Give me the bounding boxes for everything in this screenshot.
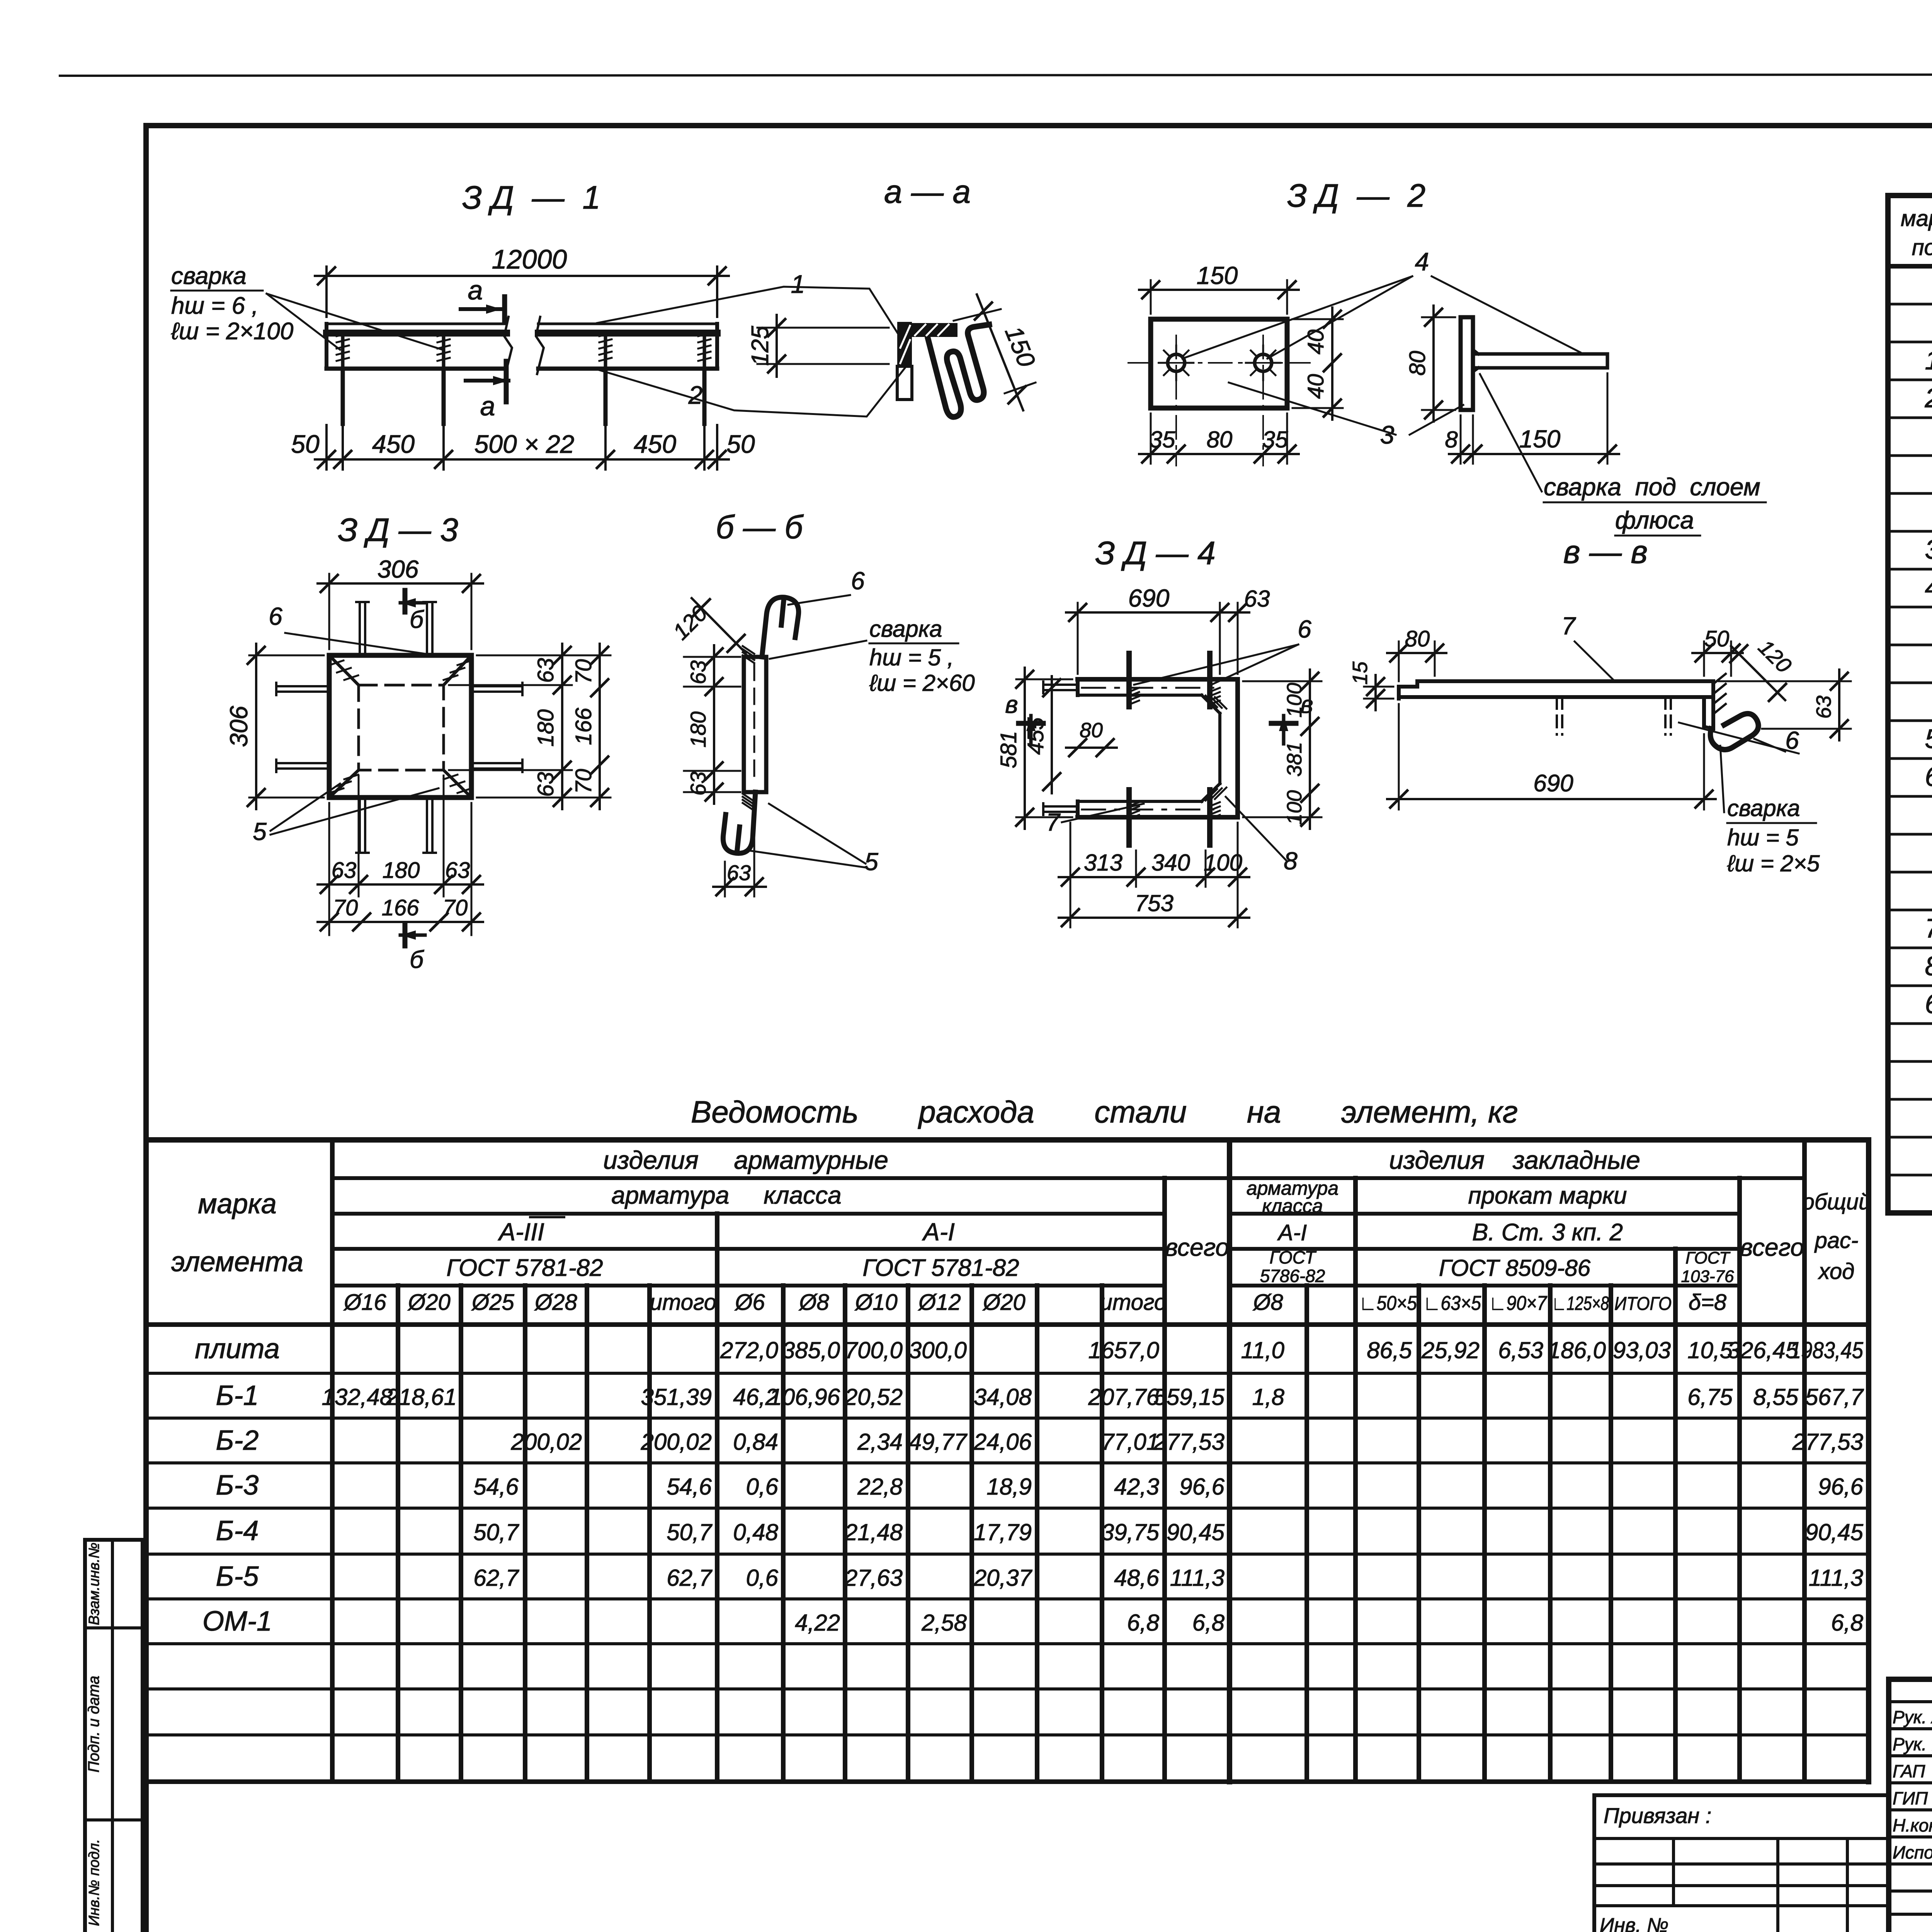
ZD-2 plate — [1151, 319, 1287, 408]
left strip boxes — [85, 1540, 143, 1932]
svg-text:изделия закладные: изделия закладные — [1389, 1146, 1640, 1174]
svg-text:207,76: 207,76 — [1088, 1384, 1159, 1410]
svg-text:hш = 5: hш = 5 — [1727, 825, 1799, 850]
svg-text:90,45: 90,45 — [1805, 1519, 1864, 1545]
svg-text:80: 80 — [1080, 719, 1103, 742]
ZD-3 section mark b bottom — [403, 924, 408, 946]
svg-text:0,84: 0,84 — [733, 1429, 778, 1455]
svg-text:в: в — [1005, 690, 1018, 718]
v-v dim 63 right — [1719, 680, 1851, 682]
svg-text:прокат марки: прокат марки — [1468, 1182, 1627, 1209]
ZD-3 dim 306 left — [249, 655, 324, 656]
svg-text:Ø10: Ø10 — [854, 1290, 898, 1315]
svg-text:ГОСТ: ГОСТ — [1685, 1248, 1731, 1267]
ZD-2 side view — [1461, 317, 1473, 410]
svg-text:581: 581 — [996, 731, 1021, 769]
svg-text:Ø20: Ø20 — [982, 1290, 1026, 1315]
ZD-1 break lines — [504, 317, 512, 374]
svg-text:70: 70 — [443, 895, 468, 920]
svg-text:7: 7 — [1561, 612, 1576, 640]
svg-text:186,0: 186,0 — [1548, 1337, 1606, 1363]
svg-text:753: 753 — [1135, 890, 1173, 916]
svg-text:ход: ход — [1818, 1259, 1855, 1284]
ZD-3 section mark b top — [403, 590, 408, 612]
svg-text:25,92: 25,92 — [1421, 1337, 1480, 1363]
svg-text:3: 3 — [1380, 420, 1395, 449]
a-a dim 125 — [757, 327, 889, 329]
ZD-4 bottom dims 313 340 100 — [1070, 823, 1071, 927]
svg-text:49,77: 49,77 — [909, 1429, 968, 1455]
svg-text:поз.: поз. — [1912, 235, 1932, 260]
svg-text:70: 70 — [333, 895, 358, 920]
svg-text:hш = 6 ,: hш = 6 , — [171, 293, 259, 319]
svg-text:Б-2: Б-2 — [216, 1425, 259, 1456]
svg-text:флюса: флюса — [1615, 506, 1694, 534]
ZD-4 corner weld hatch — [1206, 696, 1217, 707]
svg-text:100: 100 — [1283, 790, 1306, 825]
svg-text:плита: плита — [195, 1333, 279, 1364]
section a-a detail — [897, 322, 912, 366]
svg-text:6: 6 — [1298, 615, 1311, 643]
svg-text:62,7: 62,7 — [667, 1565, 713, 1591]
svg-text:42,3: 42,3 — [1114, 1474, 1159, 1500]
big table horizontal lines — [146, 1137, 1869, 1143]
svg-text:80: 80 — [1405, 351, 1430, 376]
svg-text:всего: всего — [1740, 1233, 1804, 1261]
ZD-4 right dims 100 381 100 — [1243, 680, 1321, 682]
svg-text:500 × 22: 500 × 22 — [474, 430, 575, 458]
svg-text:а: а — [468, 275, 483, 305]
svg-text:150: 150 — [1519, 425, 1561, 453]
svg-text:A-I: A-I — [1277, 1220, 1307, 1245]
svg-text:6,8: 6,8 — [1831, 1610, 1864, 1636]
svg-text:70: 70 — [571, 659, 596, 684]
ZD-1 section marks a-a — [502, 297, 507, 321]
svg-text:6,53: 6,53 — [1498, 1337, 1543, 1363]
svg-text:100: 100 — [1204, 850, 1242, 876]
b-b dim 120 — [692, 598, 746, 653]
v-v dim 120 diagonal — [1731, 646, 1785, 700]
svg-text:общий: общий — [1802, 1189, 1871, 1214]
svg-text:35: 35 — [1150, 427, 1175, 452]
svg-text:313: 313 — [1084, 850, 1122, 876]
svg-text:27,63: 27,63 — [844, 1565, 903, 1591]
svg-text:18,9: 18,9 — [986, 1474, 1032, 1500]
section b-b detail — [744, 657, 766, 792]
svg-text:ℓш = 2×100: ℓш = 2×100 — [171, 318, 293, 345]
ZD-3 dim 306 top — [328, 574, 330, 649]
svg-text:40: 40 — [1303, 374, 1328, 399]
svg-text:рас-: рас- — [1814, 1228, 1859, 1253]
svg-text:306: 306 — [378, 555, 419, 583]
svg-text:96,6: 96,6 — [1818, 1474, 1863, 1500]
ZD-4 dim 80 — [1066, 747, 1117, 749]
svg-text:100: 100 — [1283, 683, 1306, 718]
svg-text:277,53: 277,53 — [1792, 1429, 1863, 1455]
svg-text:6: 6 — [269, 602, 282, 630]
svg-text:Ø8: Ø8 — [798, 1290, 829, 1315]
svg-text:93,03: 93,03 — [1613, 1337, 1671, 1363]
svg-text:Ø6: Ø6 — [734, 1290, 765, 1315]
ZD-4 plan outline — [1078, 677, 1238, 682]
svg-text:1: 1 — [1925, 345, 1932, 375]
ZD-1 leader to 2 — [597, 364, 908, 417]
ZD-3 rods — [276, 685, 329, 687]
svg-text:Ø28: Ø28 — [534, 1290, 577, 1315]
svg-text:элемента: элемента — [171, 1247, 303, 1277]
v-v dim 80 — [1398, 641, 1400, 681]
svg-text:Б-3: Б-3 — [216, 1470, 259, 1501]
svg-text:277,53: 277,53 — [1153, 1429, 1225, 1455]
svg-text:132,48: 132,48 — [321, 1384, 393, 1410]
svg-text:6,8: 6,8 — [1192, 1610, 1225, 1636]
svg-text:63: 63 — [686, 660, 710, 684]
svg-text:класса: класса — [1262, 1195, 1323, 1217]
svg-text:12000: 12000 — [492, 244, 567, 274]
svg-text:Ø25: Ø25 — [471, 1290, 514, 1315]
svg-text:63: 63 — [445, 858, 470, 883]
svg-text:З Д — 4: З Д — 4 — [1095, 535, 1215, 571]
svg-text:ОМ-1: ОМ-1 — [202, 1606, 272, 1637]
title block outer — [1889, 1679, 1932, 1932]
svg-text:50: 50 — [726, 430, 755, 458]
svg-text:итого: итого — [1100, 1290, 1167, 1315]
svg-text:4: 4 — [1415, 247, 1429, 276]
svg-text:6,8: 6,8 — [1127, 1610, 1160, 1636]
svg-text:а: а — [480, 391, 495, 421]
svg-text:Рук. КБ-1: Рук. КБ-1 — [1893, 1734, 1932, 1754]
svg-text:1,8: 1,8 — [1252, 1384, 1285, 1410]
svg-text:20,52: 20,52 — [844, 1384, 903, 1410]
svg-text:6: 6 — [1925, 762, 1932, 792]
svg-text:166: 166 — [571, 707, 596, 745]
b-b bottom dim 63 — [724, 862, 726, 896]
svg-text:1657,0: 1657,0 — [1088, 1337, 1159, 1363]
ZD-3 right dims 70 166 70 — [599, 644, 601, 809]
svg-text:Ø8: Ø8 — [1252, 1290, 1283, 1315]
svg-text:Рук. АБ-1: Рук. АБ-1 — [1893, 1707, 1932, 1727]
svg-text:марка: марка — [198, 1189, 276, 1219]
svg-text:8: 8 — [1925, 951, 1932, 981]
svg-text:б — б: б — б — [716, 509, 804, 545]
v-v dim 15 — [1364, 686, 1393, 688]
svg-text:A-I: A-I — [922, 1218, 955, 1246]
svg-text:340: 340 — [1151, 850, 1190, 876]
svg-text:Ø12: Ø12 — [918, 1290, 961, 1315]
svg-text:4: 4 — [1925, 572, 1932, 602]
svg-text:8,55: 8,55 — [1753, 1384, 1798, 1410]
svg-text:20,37: 20,37 — [973, 1565, 1033, 1591]
svg-text:11,0: 11,0 — [1241, 1337, 1284, 1363]
svg-text:50: 50 — [1704, 626, 1730, 651]
svg-text:17,79: 17,79 — [974, 1519, 1032, 1545]
svg-text:0,48: 0,48 — [733, 1519, 778, 1545]
svg-text:103-76: 103-76 — [1681, 1267, 1734, 1286]
svg-text:690: 690 — [1533, 770, 1573, 797]
svg-text:ГОСТ 5781-82: ГОСТ 5781-82 — [446, 1255, 603, 1281]
svg-text:200,02: 200,02 — [640, 1429, 712, 1455]
svg-text:50: 50 — [291, 430, 320, 458]
v-v hook — [1710, 714, 1758, 750]
b-b bottom hook — [723, 792, 755, 853]
svg-text:567,7: 567,7 — [1805, 1384, 1864, 1410]
svg-text:Н.контр.: Н.контр. — [1893, 1815, 1932, 1835]
svg-text:50,7: 50,7 — [667, 1519, 713, 1545]
svg-text:7: 7 — [1046, 808, 1061, 836]
svg-text:ГОСТ 5781-82: ГОСТ 5781-82 — [862, 1255, 1019, 1281]
svg-text:48,6: 48,6 — [1114, 1565, 1159, 1591]
b-b hatch top/bottom — [743, 646, 754, 654]
svg-text:111,3: 111,3 — [1170, 1565, 1225, 1591]
svg-text:180: 180 — [533, 709, 558, 747]
svg-text:ГОСТ: ГОСТ — [1269, 1247, 1316, 1267]
v-v weld hatch right — [1713, 674, 1726, 684]
svg-text:изделия арматурные: изделия арматурные — [603, 1146, 888, 1174]
svg-text:A-III: A-III — [497, 1218, 544, 1246]
b-b left dims 63 180 63 — [684, 656, 740, 658]
ZD-3 corner welds — [329, 655, 359, 685]
svg-text:54,6: 54,6 — [667, 1474, 712, 1500]
svg-text:300,0: 300,0 — [909, 1337, 967, 1363]
svg-text:3: 3 — [1925, 534, 1932, 565]
svg-text:а — а: а — а — [884, 173, 971, 210]
svg-text:сварка: сварка — [1727, 795, 1800, 821]
svg-text:5: 5 — [253, 818, 267, 845]
svg-text:63: 63 — [686, 772, 710, 796]
svg-text:63: 63 — [1244, 586, 1270, 612]
section v-v detail — [1399, 681, 1713, 699]
b-b top hook — [762, 597, 799, 657]
svg-text:Привязан :: Привязан : — [1604, 1803, 1711, 1828]
svg-text:З Д — 1: З Д — 1 — [462, 179, 600, 216]
svg-text:5: 5 — [1925, 724, 1932, 754]
svg-text:106,96: 106,96 — [769, 1384, 840, 1410]
ZD-2 dims 35 80 35 — [1150, 413, 1152, 464]
svg-text:З Д — 2: З Д — 2 — [1287, 177, 1425, 214]
svg-text:7: 7 — [1925, 913, 1932, 943]
svg-text:690: 690 — [1128, 584, 1170, 612]
svg-text:218,61: 218,61 — [385, 1384, 457, 1410]
svg-text:326,45: 326,45 — [1727, 1337, 1798, 1363]
svg-text:∟125×8: ∟125×8 — [1552, 1293, 1609, 1314]
big table vertical lines — [143, 1140, 149, 1782]
svg-text:166: 166 — [382, 895, 420, 920]
svg-text:0,6: 0,6 — [746, 1565, 779, 1591]
ZD-1 beam body — [327, 323, 507, 325]
ZD-3 bottom dims 63 180 63 — [328, 803, 330, 935]
svg-text:З Д — 3: З Д — 3 — [338, 512, 458, 548]
svg-text:5: 5 — [864, 848, 878, 876]
svg-text:итого: итого — [650, 1290, 716, 1315]
ZD-4 left dims 455 581 — [1016, 679, 1072, 680]
svg-text:10,5: 10,5 — [1687, 1337, 1733, 1363]
svg-text:450: 450 — [634, 430, 676, 458]
svg-text:Подп. и дата: Подп. и дата — [85, 1676, 102, 1772]
svg-text:80: 80 — [1207, 427, 1233, 452]
svg-text:22,8: 22,8 — [857, 1474, 903, 1500]
ZD-4 rods — [1126, 653, 1132, 707]
svg-text:39,75: 39,75 — [1101, 1519, 1160, 1545]
svg-text:сварка под слоем: сварка под слоем — [1544, 473, 1760, 501]
svg-text:35: 35 — [1262, 427, 1288, 452]
a-a hook rod — [928, 325, 989, 417]
svg-text:2: 2 — [688, 381, 703, 409]
svg-text:Взам.инв.№: Взам.инв.№ — [86, 1543, 102, 1625]
svg-text:В. Ст. 3 кп. 2: В. Ст. 3 кп. 2 — [1472, 1219, 1623, 1246]
svg-text:700,0: 700,0 — [845, 1337, 903, 1363]
svg-text:111,3: 111,3 — [1809, 1565, 1863, 1591]
svg-text:Ø20: Ø20 — [407, 1290, 451, 1315]
svg-text:арматура класса: арматура класса — [611, 1181, 841, 1209]
ZD-4 section marks v — [1019, 721, 1043, 726]
ZD-1 dim 12000 — [325, 267, 328, 317]
svg-text:180: 180 — [383, 858, 420, 883]
svg-text:200,02: 200,02 — [510, 1429, 582, 1455]
svg-text:6: 6 — [1925, 989, 1932, 1019]
svg-text:559,15: 559,15 — [1153, 1384, 1225, 1410]
svg-text:381: 381 — [1283, 742, 1306, 777]
svg-text:306: 306 — [225, 706, 253, 747]
ZD-2 center lines — [1128, 362, 1310, 364]
v-v dim 690 — [1398, 704, 1400, 810]
svg-text:Ø16: Ø16 — [343, 1290, 386, 1315]
svg-text:63: 63 — [533, 772, 558, 797]
svg-text:2,34: 2,34 — [857, 1429, 903, 1455]
svg-text:63: 63 — [1812, 696, 1835, 719]
ZD-2 dims 40 40 — [1293, 318, 1343, 320]
svg-text:5786-82: 5786-82 — [1260, 1266, 1325, 1286]
v-v hidden rods — [1556, 697, 1558, 735]
svg-text:1983,45: 1983,45 — [1790, 1337, 1864, 1363]
ZD-2 side dim 80 — [1422, 316, 1455, 318]
scan top edge line — [60, 74, 1932, 76]
svg-text:сварка: сварка — [869, 616, 942, 642]
svg-text:сварка: сварка — [171, 263, 247, 289]
ZD-4 dim 690 63 top — [1077, 603, 1079, 674]
ZD-3 bottom dims 70 166 70 — [318, 921, 483, 923]
ZD-2 side dims 8 150 — [1460, 415, 1462, 464]
svg-text:40: 40 — [1303, 330, 1328, 355]
ZD-3 right dims 63 180 63 — [477, 655, 611, 656]
svg-text:∟50×5: ∟50×5 — [1359, 1292, 1417, 1315]
svg-text:всего: всего — [1165, 1233, 1229, 1261]
svg-text:2: 2 — [1925, 383, 1932, 413]
svg-text:ГИП: ГИП — [1893, 1788, 1928, 1808]
ZD-4 left stubs — [1043, 684, 1078, 686]
svg-text:80: 80 — [1405, 626, 1430, 651]
svg-text:∟90×7: ∟90×7 — [1489, 1292, 1548, 1315]
svg-text:б: б — [410, 946, 424, 973]
svg-text:ГОСТ 8509-86: ГОСТ 8509-86 — [1439, 1255, 1591, 1281]
ZD-4 flange center dashes — [1082, 687, 1217, 689]
a-a dim 150 — [954, 309, 1001, 321]
svg-text:90,45: 90,45 — [1167, 1519, 1225, 1545]
svg-text:351,39: 351,39 — [641, 1384, 712, 1410]
svg-text:Исполн.: Исполн. — [1893, 1842, 1932, 1862]
ZD-1 anchor welds and rods — [341, 333, 345, 369]
svg-text:34,08: 34,08 — [974, 1384, 1032, 1410]
svg-text:21,48: 21,48 — [844, 1519, 903, 1545]
svg-text:ℓш = 2×60: ℓш = 2×60 — [869, 670, 975, 696]
svg-text:Б-4: Б-4 — [216, 1515, 259, 1546]
svg-text:hш = 5 ,: hш = 5 , — [869, 645, 954, 670]
privyazan box — [1594, 1793, 1889, 1797]
svg-text:ГАП: ГАП — [1893, 1761, 1925, 1781]
svg-text:63: 63 — [332, 858, 357, 883]
svg-text:50,7: 50,7 — [473, 1519, 519, 1545]
svg-text:63: 63 — [533, 658, 558, 683]
ZD-2 dim 150 top — [1150, 280, 1152, 314]
svg-text:∟63×5: ∟63×5 — [1423, 1292, 1481, 1315]
svg-text:150: 150 — [1197, 262, 1238, 289]
svg-text:455: 455 — [1023, 717, 1048, 755]
svg-text:70: 70 — [571, 769, 596, 794]
ZD-4 dim 753 — [1059, 917, 1249, 919]
svg-text:Б-1: Б-1 — [216, 1380, 259, 1411]
ZD-2 holes — [1168, 354, 1185, 371]
svg-text:77,01: 77,01 — [1101, 1429, 1159, 1455]
svg-text:марка: марка — [1901, 206, 1932, 231]
ZD-1 leader to 1 — [597, 287, 898, 333]
ZD-3 plate plan — [329, 655, 471, 798]
svg-text:450: 450 — [372, 430, 415, 458]
svg-text:54,6: 54,6 — [473, 1474, 519, 1500]
svg-text:63: 63 — [727, 861, 751, 885]
svg-text:125: 125 — [747, 326, 774, 366]
svg-text:15: 15 — [1349, 661, 1372, 685]
svg-text:62,7: 62,7 — [473, 1565, 519, 1591]
svg-text:86,5: 86,5 — [1367, 1337, 1412, 1363]
svg-text:1: 1 — [791, 270, 805, 298]
svg-text:Ведомость расхода: Ведомость расхода стали на элемент, кг — [691, 1095, 1518, 1129]
svg-text:ИТОГО: ИТОГО — [1614, 1294, 1672, 1314]
svg-text:δ=8: δ=8 — [1689, 1290, 1726, 1315]
ZD-1 bottom dims — [325, 425, 328, 469]
svg-text:2,58: 2,58 — [921, 1610, 967, 1636]
svg-text:4,22: 4,22 — [795, 1610, 840, 1636]
svg-text:Инв. №: Инв. № — [1600, 1914, 1668, 1932]
svg-text:ℓш = 2×5: ℓш = 2×5 — [1727, 850, 1820, 876]
svg-text:272,0: 272,0 — [720, 1337, 778, 1363]
svg-text:180: 180 — [686, 711, 710, 747]
svg-text:0,6: 0,6 — [746, 1474, 779, 1500]
svg-text:6,75: 6,75 — [1687, 1384, 1733, 1410]
svg-text:в — в: в — в — [1563, 534, 1648, 570]
svg-text:24,06: 24,06 — [973, 1429, 1032, 1455]
svg-text:96,6: 96,6 — [1179, 1474, 1225, 1500]
svg-text:6: 6 — [851, 567, 865, 595]
v-v dim 50 — [1703, 641, 1705, 676]
svg-text:Инв.№ подл.: Инв.№ подл. — [86, 1839, 102, 1926]
svg-text:б: б — [410, 605, 424, 633]
svg-text:Б-5: Б-5 — [216, 1561, 259, 1592]
svg-text:8: 8 — [1445, 427, 1458, 452]
svg-text:385,0: 385,0 — [782, 1337, 840, 1363]
spec table grid — [1888, 196, 1932, 1213]
